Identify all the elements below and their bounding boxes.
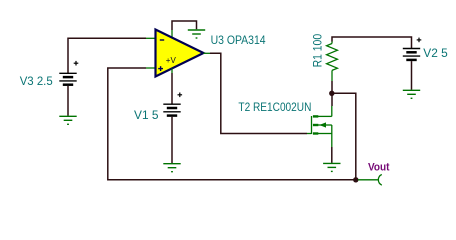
arrow of T2 body — [319, 122, 326, 127]
ground — [188, 30, 205, 38]
Vout terminal hook — [378, 175, 381, 186]
plus sign V2 — [417, 38, 422, 43]
wire op-amp V- pin to ground — [172, 21, 197, 30]
wire op-amp output to T2 gate — [210, 53, 307, 133]
op-amp U1 — [156, 30, 204, 77]
svg-text:R1 100: R1 100 — [312, 34, 324, 68]
pin stub op-amp non-inverting input — [146, 67, 156, 69]
transistor T2 — [312, 106, 332, 147]
battery V1 — [163, 104, 180, 115]
ground — [59, 116, 76, 124]
battery V2 — [403, 49, 420, 60]
pin stub op-amp bottom supply — [171, 69, 173, 74]
svg-text:V2 5: V2 5 — [423, 48, 448, 60]
wire node to Vout rail — [332, 93, 356, 180]
svg-text:+V: +V — [166, 56, 177, 65]
plus sign V3 — [74, 61, 79, 66]
svg-text:U3 OPA314: U3 OPA314 — [211, 35, 267, 47]
pin stub op-amp inverting input — [146, 37, 156, 39]
svg-text:Vout: Vout — [368, 161, 390, 173]
pin stub T2 gate — [307, 133, 312, 135]
wire op-amp V+ pin to V1 — [171, 73, 173, 104]
wire V2 bottom to ground — [411, 61, 413, 90]
plus sign V1 — [178, 93, 183, 98]
wire node down to T2 drain — [331, 93, 333, 106]
resistor R1 — [327, 42, 338, 82]
wire V1 bottom to ground — [171, 117, 173, 163]
ground — [163, 164, 180, 172]
pin label minus — [160, 39, 164, 41]
wire R1 top to V2 — [332, 37, 412, 48]
wire V3 bottom to ground — [67, 86, 69, 116]
svg-text:T2 RE1C002UN: T2 RE1C002UN — [238, 102, 311, 114]
wire R1 bottom to node — [331, 81, 333, 93]
wire node to Vout pin — [358, 179, 379, 181]
ground — [403, 90, 420, 98]
svg-text:V1 5: V1 5 — [134, 110, 159, 122]
wire feedback from plus input down-left to bottom rail — [108, 68, 356, 180]
ground — [323, 163, 340, 171]
pin stub op-amp output — [204, 52, 211, 54]
battery V3 — [59, 73, 76, 84]
wire T2 source to ground — [331, 147, 333, 163]
wire V3 top to op-amp inverting input — [68, 38, 146, 73]
junction node — [329, 91, 334, 96]
pin label plus — [158, 66, 163, 71]
svg-text:V3 2.5: V3 2.5 — [20, 76, 53, 88]
junction node Vout — [353, 177, 358, 182]
pin stub op-amp top supply — [171, 30, 173, 37]
